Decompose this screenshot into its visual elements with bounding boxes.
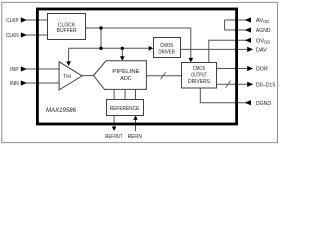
- wire AVDD-AGND vertical: [224, 20, 226, 30]
- wire CLKN: [26, 34, 48, 36]
- svg-text:AGND: AGND: [256, 28, 271, 34]
- wire clock buffer output to corner: [86, 28, 191, 58]
- svg-text:REFERENCE: REFERENCE: [110, 106, 140, 112]
- pin DGND: [245, 100, 271, 107]
- svg-text:CMOS: CMOS: [160, 43, 173, 49]
- wire reference link 1: [113, 89, 115, 100]
- wire OVDD rail: [209, 40, 249, 62]
- svg-text:PIPELINE: PIPELINE: [112, 69, 140, 75]
- arrowhead REFOUT: [112, 127, 117, 131]
- pin CLKP: [6, 17, 26, 24]
- pipeline ADC: [94, 61, 147, 90]
- wire reference link 3: [135, 89, 137, 100]
- svg-text:D0–D15: D0–D15: [256, 82, 275, 88]
- pin CLKN: [6, 32, 27, 39]
- wire clock branch vertical: [100, 28, 102, 48]
- svg-text:CLKP: CLKP: [6, 18, 18, 24]
- svg-text:T/H: T/H: [63, 74, 71, 80]
- clock buffer: [48, 14, 86, 40]
- wire T/H to pipeline ADC: [82, 75, 95, 77]
- svg-text:INN: INN: [10, 81, 19, 87]
- svg-text:DRIVERS: DRIVERS: [188, 79, 210, 85]
- wire AGND stub: [225, 29, 249, 31]
- pin AGND: [245, 27, 271, 34]
- pin AVDD: [245, 17, 269, 24]
- wire DOR: [217, 68, 248, 70]
- wire AVDD stub: [225, 19, 249, 21]
- svg-text:DOR: DOR: [256, 67, 268, 73]
- svg-text:BUFFER: BUFFER: [57, 28, 77, 34]
- svg-text:REFIN: REFIN: [128, 134, 142, 140]
- pin INN: [10, 80, 27, 87]
- svg-text:AVDD: AVDD: [256, 18, 269, 24]
- figure frame: [2, 2, 278, 142]
- junction dot B: [99, 47, 102, 50]
- wire INN: [26, 82, 60, 84]
- chip border MAX19586: [37, 9, 236, 124]
- T/H amplifier: [59, 62, 82, 90]
- pin DOR: [247, 66, 268, 73]
- svg-text:DGND: DGND: [256, 101, 271, 107]
- svg-text:OVDD: OVDD: [256, 38, 270, 44]
- wire clock distribution horizontal: [69, 47, 150, 49]
- svg-text:ADC: ADC: [120, 76, 132, 82]
- wire DGND: [200, 88, 249, 103]
- wire reference link 2: [124, 89, 126, 100]
- CMOS output drivers: [182, 63, 217, 89]
- wire D0-D15: [217, 83, 248, 85]
- wire clock to T/H: [68, 48, 70, 61]
- wire clock to pipeline adc: [121, 48, 123, 56]
- arrowhead REFIN: [133, 115, 138, 119]
- wire INP: [26, 68, 60, 70]
- svg-text:CLKN: CLKN: [6, 33, 19, 39]
- CMOS driver: [154, 38, 181, 58]
- junction dot C: [121, 47, 124, 50]
- wire CLKP: [26, 19, 48, 21]
- junction dot A: [99, 26, 102, 29]
- arrowhead into pipeline ADC: [120, 56, 125, 61]
- svg-text:CMOS: CMOS: [193, 66, 206, 72]
- wire REFOUT: [113, 115, 115, 127]
- arrowhead into T/H: [66, 61, 71, 66]
- wire pipeline ADC bus to output drivers: [146, 75, 181, 77]
- svg-text:DRIVER: DRIVER: [158, 49, 175, 55]
- pin INP: [10, 66, 27, 73]
- wire DAV from CMOS driver: [180, 48, 247, 50]
- svg-text:OUTPUT: OUTPUT: [191, 73, 207, 79]
- svg-text:MAX19586: MAX19586: [46, 107, 76, 114]
- bus slash mark D0-D15: [226, 81, 231, 88]
- wire REFIN: [135, 119, 137, 131]
- pin OVDD: [245, 38, 271, 45]
- svg-text:DAV: DAV: [256, 48, 267, 54]
- arrowhead into CMOS output drivers: [188, 58, 193, 63]
- pin DAV: [247, 47, 267, 54]
- arrowhead into CMOS driver: [149, 46, 154, 51]
- bus slash mark: [161, 72, 166, 79]
- pin D0-D15: [247, 82, 275, 89]
- svg-text:REFOUT: REFOUT: [105, 134, 123, 140]
- svg-text:INP: INP: [10, 67, 19, 73]
- reference: [107, 100, 144, 116]
